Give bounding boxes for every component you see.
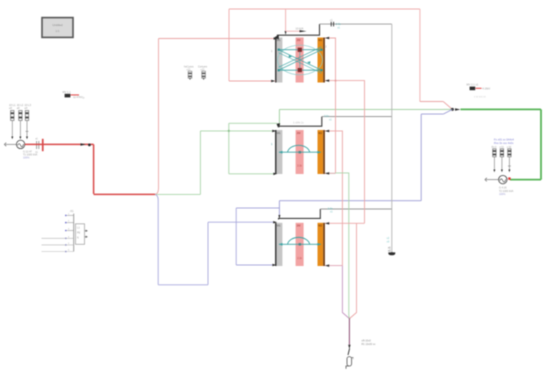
transformer T1 cross diagonals <box>279 47 322 73</box>
wire gray T2 neutral to ground bus <box>322 116 392 118</box>
wire green junction to T2 primary top <box>155 130 276 195</box>
svg-text:aR: aR <box>24 107 27 110</box>
transformer T3 winding line <box>279 243 322 246</box>
wire red T1 secondary bottom to T3 secondary top <box>325 79 365 223</box>
transformer T2 winding line <box>279 151 322 154</box>
junction dot B <box>451 108 454 111</box>
transformer T3 winding arc <box>288 237 310 244</box>
wire red B to T1 primary top <box>156 37 278 194</box>
wire green T2 top to right junction <box>279 109 452 125</box>
bottom arrester labels <box>362 340 377 346</box>
svg-text:4.16kV: 4.16kV <box>482 88 490 91</box>
wire red drop to T1 primary bottom <box>229 9 275 82</box>
bottom fuse body <box>347 357 355 366</box>
connector X1 right pin b <box>85 236 88 238</box>
connector pin 6 <box>42 250 74 253</box>
wire feeder bold red <box>25 144 156 194</box>
transformer T1 node blocks on pink bar <box>298 48 302 72</box>
wire green feeder bold <box>461 109 542 179</box>
transformer T1 winding ellipse <box>278 45 323 75</box>
wire converge vertical <box>348 318 350 344</box>
svg-text:aR: aR <box>17 107 20 110</box>
source G2 labels <box>499 187 514 196</box>
ground bus teal label <box>387 237 390 244</box>
wire green T2 primary bottom branch <box>228 123 279 175</box>
connector X1 bus line <box>73 214 75 252</box>
svg-text:aR: aR <box>9 107 12 110</box>
transformer T1 tertiary bar (pink) <box>296 38 304 83</box>
source G2 red tap <box>508 177 510 179</box>
wire red top bus <box>229 8 420 10</box>
wire red T3 secondary top branch <box>325 222 365 318</box>
svg-text:13 kV4: 13 kV4 <box>296 27 304 30</box>
svg-text:W1: W1 <box>277 131 281 135</box>
wire fuse F5 down <box>501 157 503 172</box>
ground ref label T3 (teal) <box>328 206 334 213</box>
transformer T3 primary bar (gray) <box>275 223 282 266</box>
bottom switch blade <box>348 348 350 355</box>
transformer T3 center mark <box>299 243 301 245</box>
wire gray T1 neutral to ground bus <box>320 23 392 25</box>
svg-text:R1 13x00 xx: R1 13x00 xx <box>362 343 377 346</box>
svg-text:100%: 100% <box>23 156 30 159</box>
svg-text:W2: W2 <box>318 38 322 42</box>
svg-text:2.1k: 2.1k <box>297 257 302 260</box>
wire fuse F6 down <box>508 157 511 172</box>
spare arrester A1 <box>188 71 192 80</box>
svg-text:W2: W2 <box>318 131 322 135</box>
svg-text:Untitled: Untitled <box>52 23 63 27</box>
connector pin 2 <box>65 221 74 224</box>
transformer T2 primary bar (gray) <box>275 130 282 174</box>
wire red top bus right drop <box>420 9 453 109</box>
svg-text:Fx x01 xx 0A4x4: Fx x01 xx 0A4x4 <box>494 137 514 141</box>
ground ref label T2 (teal) <box>324 114 332 121</box>
svg-text:1/1: 1/1 <box>55 29 60 33</box>
source G1 (AC) <box>16 140 24 148</box>
fuse F6 <box>508 149 511 157</box>
svg-text:PE: PE <box>77 232 81 235</box>
source G1 labels <box>23 150 38 159</box>
svg-text:MV 1.1: MV 1.1 <box>63 90 72 94</box>
connector ticks on feeder <box>35 138 38 154</box>
terminal X2 <box>485 178 499 182</box>
wire T2 secondary bottom (red to green) <box>325 172 349 318</box>
svg-text:W1: W1 <box>277 224 281 228</box>
transformer T3 tertiary bar (pink) <box>296 223 304 266</box>
ground ref label T1 (teal) <box>336 22 342 29</box>
svg-text:2.1k: 2.1k <box>297 165 302 168</box>
transformer T2 tertiary bar (pink) <box>296 130 304 174</box>
fuse F4 <box>493 149 496 157</box>
svg-text:-X1: -X1 <box>70 209 75 213</box>
transformer T1 pin labels <box>271 46 327 53</box>
busbar tick (red) <box>42 139 44 151</box>
svg-text:2W: 2W <box>297 224 301 228</box>
svg-text:MV 2.1 x1: MV 2.1 x1 <box>467 83 479 87</box>
svg-text:100%: 100% <box>499 193 506 196</box>
transformer T1 secondary bar (orange) <box>318 38 325 83</box>
connector pin 4 <box>42 236 74 239</box>
junction dot A <box>88 144 91 147</box>
wire red T1 secondary top to T2 secondary bottom <box>325 37 336 173</box>
junction arrow B <box>455 108 461 111</box>
meter M1 <box>65 94 86 100</box>
ground bus text <box>388 246 391 252</box>
ground symbol <box>388 252 395 255</box>
wire fuse F1 to source <box>11 121 13 140</box>
bottom ground hook <box>346 366 349 369</box>
right feeder blue label <box>494 137 514 144</box>
terminal X0 <box>4 143 16 147</box>
spare arrester A2 <box>202 71 206 80</box>
spare arrester A1 labels <box>184 66 194 72</box>
fuse F1 <box>11 111 14 121</box>
wire fuse F3 to source <box>26 121 29 140</box>
source G2 (AC) <box>499 175 507 183</box>
wire black T1 neutral <box>275 24 320 39</box>
bottom arrester arrow <box>348 345 350 349</box>
wire black T2 neutral <box>278 117 322 128</box>
transformer T2 secondary bar (orange) <box>318 130 325 174</box>
wire red T3 secondary bottom link <box>325 264 342 267</box>
transformer T3 secondary bar (orange) <box>318 223 325 266</box>
svg-text:2-0x: 2-0x <box>324 114 330 118</box>
svg-text:1 x04x 1x: 1 x04x 1x <box>293 122 304 125</box>
meter M2 <box>470 87 491 91</box>
connector pin 1 <box>65 213 74 216</box>
transformer T1 winding line top <box>278 49 323 51</box>
transformer T2 center mark <box>299 151 301 153</box>
wire red drop to T1 neutral link <box>285 9 307 35</box>
wire fuse F4 down <box>493 157 495 172</box>
svg-text:2W: 2W <box>297 38 301 42</box>
wire red T2 secondary top down to converge <box>325 130 349 319</box>
feeder arrow <box>81 143 86 146</box>
svg-text:W1: W1 <box>277 38 281 42</box>
svg-text:x xx xxx xx: x xx xxx xx <box>474 95 486 98</box>
title block frame <box>42 18 73 38</box>
CT ticks T1 <box>330 19 334 27</box>
wire fuse F2 to source <box>19 121 21 140</box>
wire gray T3 neutral to ground bus <box>320 208 392 210</box>
wire blue junction to T3 primary left <box>155 194 277 284</box>
fuse F2 <box>19 111 22 121</box>
svg-text:N: N <box>77 237 79 240</box>
svg-text:Rxx 0x xxx 4x0x: Rxx 0x xxx 4x0x <box>494 141 514 145</box>
transformer T2 winding arc <box>288 145 310 152</box>
connector X1 right pin a <box>85 230 88 232</box>
connector X1 body <box>76 224 85 245</box>
transformer T1 winding line bottom <box>278 69 323 71</box>
wire blue T3 loop box <box>236 208 279 266</box>
wire black T3 neutral <box>279 209 321 220</box>
fuse F3 <box>25 111 28 121</box>
fuse F5 <box>500 149 503 157</box>
ground bus vertical <box>391 24 393 253</box>
svg-text:W2: W2 <box>318 224 322 228</box>
spare arrester A2 labels <box>198 66 208 72</box>
connector pin 5 <box>42 243 74 246</box>
wire purple right junction to T3 primary top <box>278 109 452 219</box>
transformer T1 primary bar (gray) <box>275 38 282 83</box>
svg-text:2W: 2W <box>297 131 301 135</box>
connector pin 3 <box>65 229 74 232</box>
